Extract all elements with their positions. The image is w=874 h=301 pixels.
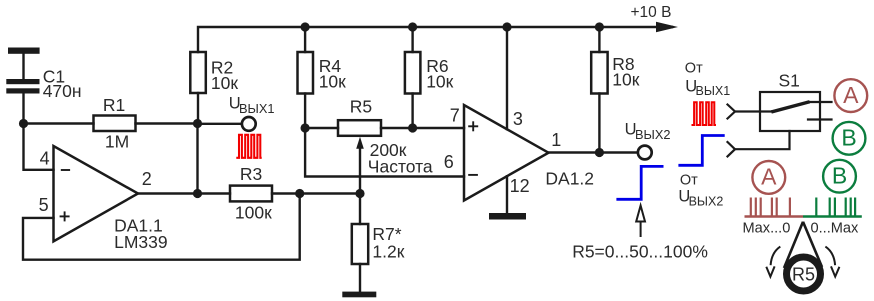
label U_BYX2 bbox=[625, 121, 671, 143]
green ticks bbox=[815, 198, 817, 217]
capacitor C1 bbox=[6, 79, 39, 94]
red pulse train baseline bbox=[745, 198, 804, 217]
resistor R7 bbox=[359, 194, 361, 225]
red waveform at U_BYX1 bbox=[236, 135, 261, 158]
wire output pin2 DA1.1 bbox=[138, 192, 198, 194]
resistor R4 bbox=[298, 52, 314, 94]
svg-text:0...Max: 0...Max bbox=[811, 220, 860, 236]
labels left part bbox=[43, 54, 800, 261]
wire node A down to pin4 bbox=[24, 124, 54, 170]
terminal U_BYX2 circle bbox=[638, 146, 652, 160]
legend circle B row2 bbox=[823, 160, 856, 193]
blue step waveform at U_BYX2 bbox=[616, 166, 663, 199]
wire pin12 to ground bbox=[506, 176, 508, 213]
svg-text:R1: R1 bbox=[103, 95, 125, 115]
svg-text:6: 6 bbox=[444, 152, 454, 172]
node C junction (DA1.1 output) bbox=[193, 189, 202, 198]
chassis bar (common) top-left bbox=[8, 48, 40, 54]
wire R1 to node B bbox=[136, 122, 198, 124]
svg-text:100к: 100к bbox=[235, 203, 272, 223]
op-amp DA1.2 bbox=[464, 105, 549, 201]
op-amp input polarity signs DA1.1 bbox=[60, 121, 479, 221]
svg-text:1: 1 bbox=[551, 130, 561, 150]
rail arrowhead bbox=[656, 22, 678, 32]
input chevron 1 bbox=[728, 105, 736, 119]
svg-text:10к: 10к bbox=[426, 72, 453, 92]
rail junction R8 bbox=[595, 22, 604, 31]
wire rail to pin3 bbox=[506, 27, 508, 129]
svg-text:R5: R5 bbox=[350, 96, 372, 116]
ground under DA1.2 bbox=[489, 213, 526, 220]
svg-text:S1: S1 bbox=[779, 71, 800, 91]
wire rail to R6 bbox=[411, 27, 413, 52]
potentiometer R5 bbox=[338, 120, 381, 136]
svg-text:1.2к: 1.2к bbox=[372, 241, 404, 261]
resistor R8 bbox=[591, 52, 607, 94]
wire R3 to node D bbox=[272, 192, 300, 194]
svg-text:3: 3 bbox=[513, 109, 523, 129]
label Ot U_BYX1 bbox=[685, 61, 730, 99]
svg-text:ВЫХ1: ВЫХ1 bbox=[696, 84, 731, 98]
svg-text:B: B bbox=[832, 163, 847, 189]
throw contact B stub bbox=[808, 118, 832, 120]
resistor R3 bbox=[230, 186, 272, 202]
rail junction R6 bbox=[408, 22, 417, 31]
power rail +10V bbox=[198, 27, 672, 52]
resistor R6 bbox=[405, 52, 421, 94]
output circle B row1 bbox=[833, 122, 866, 155]
node G junction bbox=[408, 123, 417, 132]
rail junction pin3 bbox=[502, 22, 511, 31]
svg-text:10к: 10к bbox=[211, 73, 238, 93]
minus DA1.2 bbox=[468, 174, 478, 176]
switch S1 group bbox=[728, 92, 832, 156]
svg-text:ВЫХ2: ВЫХ2 bbox=[689, 194, 724, 208]
svg-text:R3: R3 bbox=[240, 164, 262, 184]
svg-text:12: 12 bbox=[510, 176, 530, 196]
wire R5 to node G bbox=[381, 127, 413, 129]
svg-text:7: 7 bbox=[450, 106, 460, 126]
red waveform Ot U_BYX1 bbox=[692, 102, 717, 125]
svg-text:ВЫХ2: ВЫХ2 bbox=[635, 127, 671, 142]
svg-text:R5=0...50...100%: R5=0...50...100% bbox=[572, 241, 708, 261]
svg-text:От: От bbox=[685, 61, 703, 77]
ground under R7 bbox=[342, 292, 376, 298]
wire node B to output terminal U_BYX1 bbox=[198, 123, 243, 125]
wire node F down to pin6 DA1.2 bbox=[305, 128, 464, 177]
wire R8 bottom to node H bbox=[598, 94, 600, 153]
svg-text:Частота: Частота bbox=[368, 156, 433, 176]
switch S1 box bbox=[760, 92, 820, 131]
svg-text:4: 4 bbox=[40, 149, 50, 169]
svg-text:A: A bbox=[843, 82, 859, 108]
knob R5 ring bbox=[787, 257, 821, 291]
wire node F to R5 bbox=[305, 127, 338, 129]
throw contact A stub bbox=[808, 101, 832, 103]
svg-text:5: 5 bbox=[39, 195, 49, 215]
svg-text:От: От bbox=[680, 173, 698, 189]
knob needle bbox=[784, 222, 822, 268]
svg-text:LM339: LM339 bbox=[114, 232, 168, 252]
switch lever bbox=[773, 102, 808, 111]
legend circle A row2 bbox=[752, 161, 785, 194]
R5 wiper arrow bbox=[359, 148, 361, 194]
wire node C to R3 bbox=[198, 192, 231, 194]
node H junction bbox=[595, 148, 604, 157]
wire C1 to node A bbox=[22, 94, 24, 124]
wire node G to pin7 DA1.2 bbox=[413, 127, 464, 129]
blue step waveform Ot U_BYX2 bbox=[678, 136, 724, 166]
svg-text:ВЫХ1: ВЫХ1 bbox=[239, 101, 275, 116]
svg-text:10к: 10к bbox=[612, 70, 639, 90]
wire rail to R8 bbox=[598, 27, 600, 52]
svg-text:A: A bbox=[761, 164, 777, 190]
plus DA1.2 bbox=[468, 125, 478, 127]
node E junction (wiper/R7) bbox=[355, 189, 364, 198]
svg-text:Max...0: Max...0 bbox=[743, 220, 791, 236]
output circle A row1 bbox=[834, 79, 867, 112]
svg-text:10к: 10к bbox=[319, 72, 346, 92]
svg-text:B: B bbox=[841, 125, 856, 151]
input chevron 2 bbox=[728, 142, 736, 156]
wire R4 bottom to node F bbox=[304, 94, 306, 129]
svg-text:2: 2 bbox=[142, 169, 152, 189]
svg-text:DA1.2: DA1.2 bbox=[545, 168, 594, 188]
wire chevron2 to box bottom bbox=[735, 131, 790, 149]
svg-text:1M: 1M bbox=[105, 132, 129, 152]
green pulse train baseline bbox=[803, 198, 862, 217]
resistor R1 bbox=[94, 116, 136, 132]
op-amp DA1.1 bbox=[54, 146, 139, 241]
node B junction bbox=[193, 119, 202, 128]
svg-text:+10 В: +10 В bbox=[631, 4, 672, 21]
resistor R2 bbox=[190, 52, 206, 93]
arrow up R5 annotation bbox=[636, 206, 645, 238]
label Ot U_BYX2 bbox=[678, 173, 723, 209]
minus DA1.1 bbox=[61, 169, 70, 171]
wire node A to R1 bbox=[24, 122, 94, 124]
rotate arrow left bbox=[766, 247, 780, 277]
node A junction bbox=[19, 119, 28, 128]
wire chassis to C1 bbox=[22, 53, 24, 80]
rotate arrow right bbox=[825, 247, 839, 277]
wire R6 bottom to node G bbox=[411, 94, 413, 129]
label U_BYX1 bbox=[229, 95, 275, 116]
plus DA1.1 bbox=[60, 215, 70, 217]
rail junction R4 bbox=[301, 22, 310, 31]
wire node B to node C vertical bbox=[196, 124, 198, 194]
wire R2 bottom to node B bbox=[197, 93, 199, 119]
svg-text:R5: R5 bbox=[792, 264, 815, 284]
wire rail to R4 bbox=[304, 27, 306, 52]
node F junction bbox=[301, 123, 310, 132]
wire chevron1 to lever pivot bbox=[735, 110, 773, 112]
terminal U_BYX1 circle bbox=[242, 117, 256, 131]
pin numbers bbox=[39, 106, 562, 216]
wire output pin1 DA1.2 bbox=[549, 151, 639, 153]
svg-text:470н: 470н bbox=[43, 81, 82, 101]
red ticks bbox=[750, 198, 752, 217]
feedback wire node D to pin5 bbox=[23, 194, 300, 260]
node D junction bbox=[295, 189, 304, 198]
wire node D to node E bbox=[300, 192, 360, 194]
